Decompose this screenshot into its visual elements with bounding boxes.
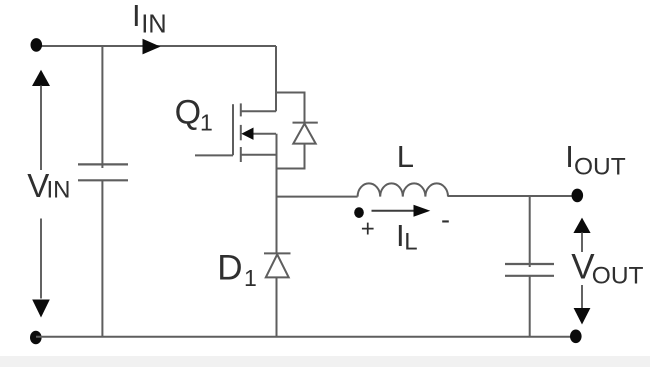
VIN indicator arrow down head: [32, 300, 50, 318]
diode D1 triangle: [266, 254, 289, 277]
transistor Q1 gate bar: [232, 104, 234, 155]
svg-text:OUT: OUT: [592, 263, 644, 290]
VOUT indicator lower line: [581, 285, 583, 310]
VIN indicator upper line: [40, 85, 42, 170]
wire: source vertical down to D1: [276, 134, 278, 254]
wire: output capacitor bottom lead: [529, 276, 531, 337]
VOUT indicator upper line: [581, 232, 583, 252]
svg-text:OUT: OUT: [574, 154, 626, 181]
svg-text:L: L: [404, 229, 417, 256]
VIN indicator lower line: [40, 219, 42, 299]
svg-text:-: -: [441, 205, 450, 235]
transistor Q1 channel drain stub: [240, 103, 242, 116]
wire: switch node to inductor: [276, 196, 358, 198]
wire: output capacitor top lead: [529, 196, 531, 267]
wire: bottom rail: [36, 336, 576, 338]
body diode triangle: [293, 124, 315, 144]
transistor Q1 body arrow: [241, 128, 253, 140]
svg-text:L: L: [397, 139, 414, 174]
transistor Q1 source lead: [241, 154, 276, 156]
wire: body diode branch top: [276, 93, 305, 124]
capacitor Cin bottom plate: [78, 179, 128, 181]
arrow IIN current direction: [143, 39, 161, 55]
transistor Q1 gate lead wire: [195, 154, 233, 156]
svg-text:IN: IN: [141, 11, 167, 39]
transistor Q1 channel body stub: [240, 125, 242, 140]
node: IL reference dot: [354, 207, 364, 218]
transistor Q1 drain lead: [241, 110, 276, 112]
node: input bottom terminal dot: [30, 331, 42, 345]
svg-text:Q: Q: [175, 94, 201, 132]
node: input top terminal dot: [31, 38, 43, 52]
VIN indicator arrow up head: [32, 70, 50, 86]
wire: top input rail: [36, 45, 276, 47]
body diode cathode bar: [293, 122, 318, 124]
svg-text:1: 1: [200, 110, 213, 136]
wire: body diode branch bottom: [276, 144, 305, 169]
node: output top terminal dot: [572, 189, 584, 203]
wire: input capacitor top lead: [101, 46, 103, 168]
wire: drain vertical from top rail: [275, 46, 277, 111]
svg-text:1: 1: [244, 265, 257, 291]
svg-text:I: I: [565, 139, 574, 174]
svg-text:+: +: [361, 215, 375, 242]
wire: D1 anode to bottom rail: [276, 277, 278, 336]
wire: input capacitor bottom lead: [101, 180, 103, 336]
transistor Q1 channel source stub: [240, 147, 242, 162]
node: output bottom terminal dot: [570, 330, 582, 344]
svg-text:I: I: [132, 0, 141, 33]
svg-text:IN: IN: [47, 177, 71, 204]
capacitor Cout bottom plate: [505, 275, 554, 277]
diode D1 cathode bar: [264, 252, 291, 254]
arrow IL current direction line: [372, 210, 416, 212]
VOUT indicator arrow down head: [574, 308, 591, 325]
arrow IL head: [414, 205, 431, 217]
capacitor Cin top plate: [78, 163, 128, 165]
capacitor Cout top plate: [505, 263, 554, 265]
VOUT indicator arrow up head: [573, 218, 590, 233]
svg-text:D: D: [217, 249, 242, 288]
bottom gray strip: [0, 356, 650, 367]
inductor L: [358, 183, 448, 196]
transistor Q1 body lead: [252, 133, 276, 135]
wire: inductor to output node: [448, 195, 572, 197]
